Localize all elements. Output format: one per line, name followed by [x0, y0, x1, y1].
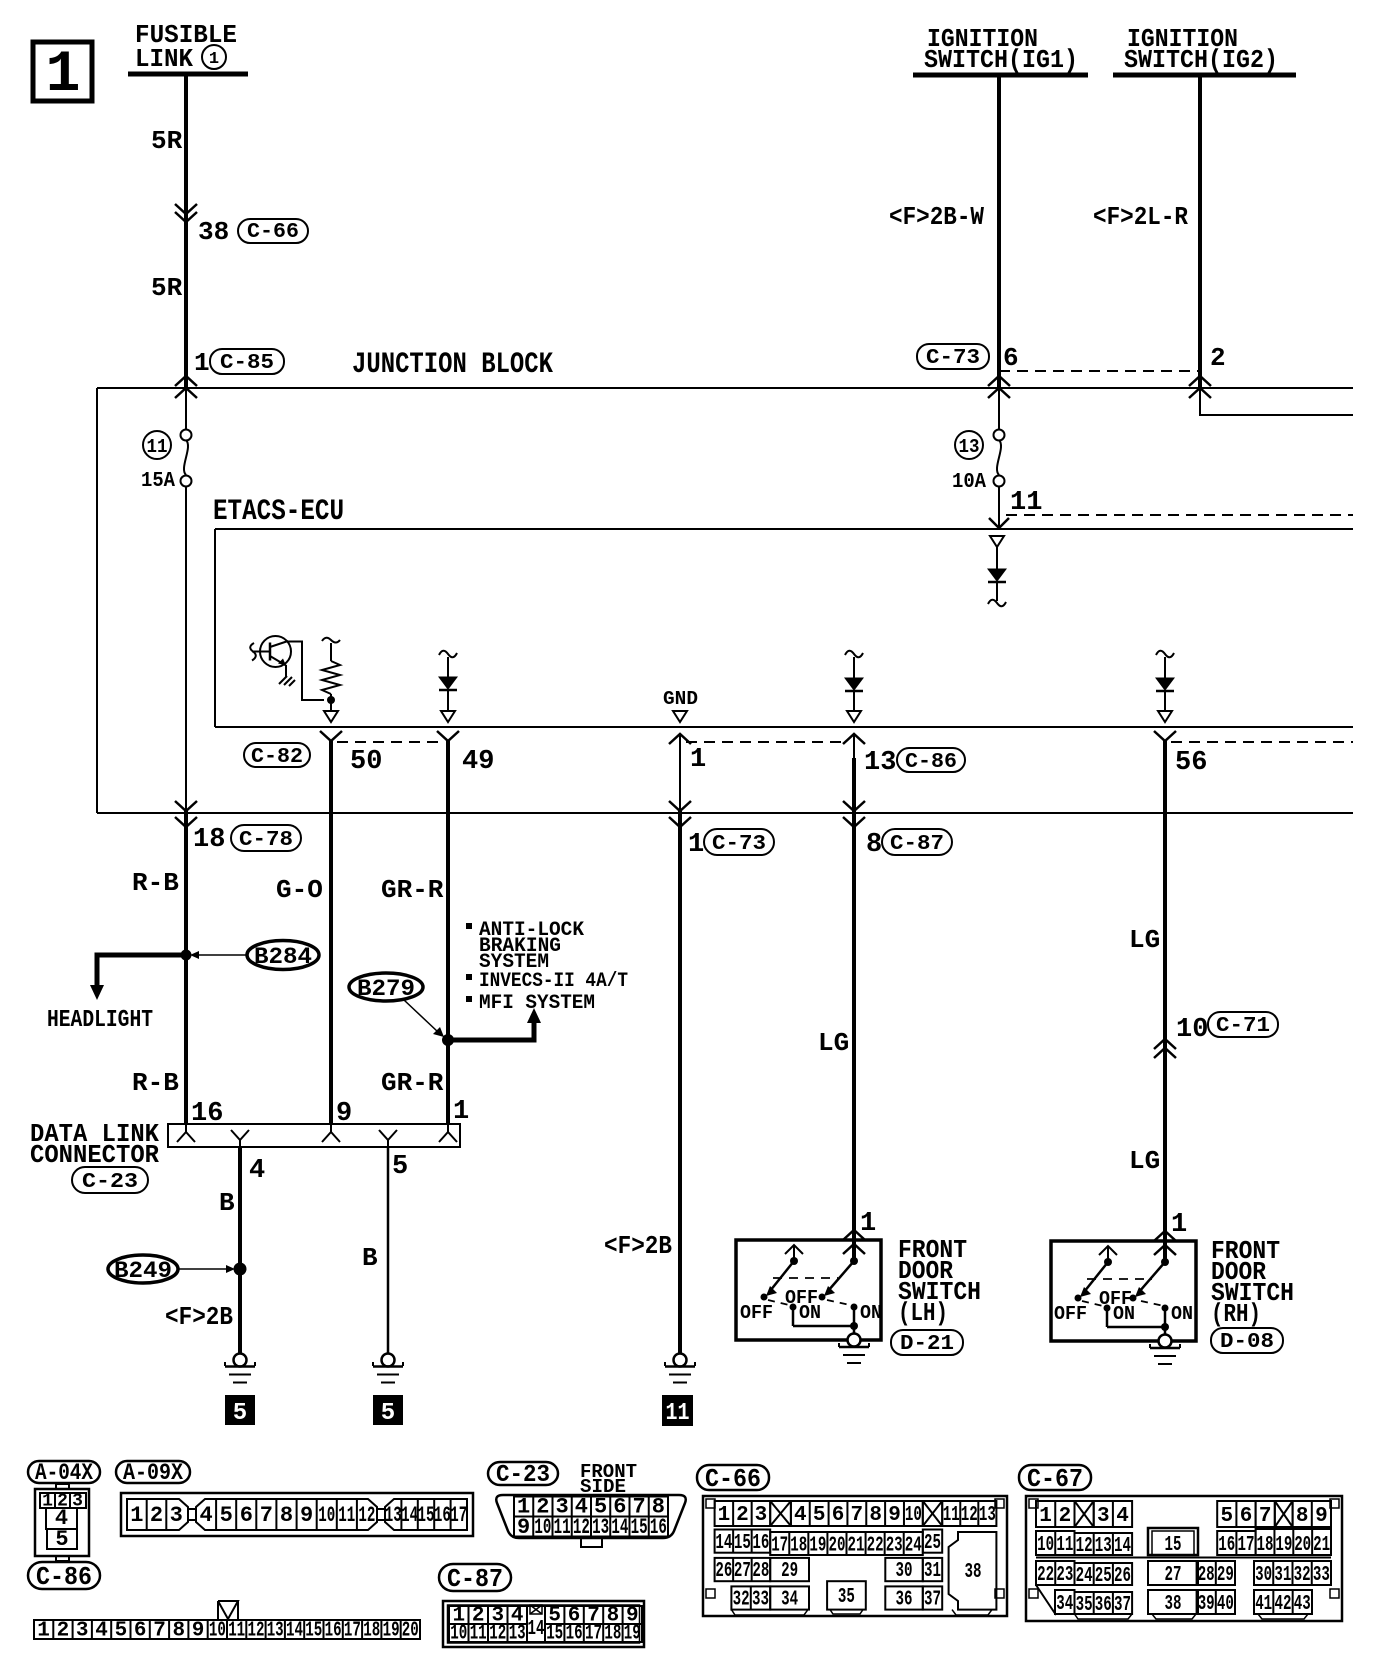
svg-text:24: 24 — [1076, 1565, 1093, 1588]
ground: wire 1 — [665, 1354, 695, 1383]
wire: fusible link down to junction block — [184, 74, 188, 388]
svg-text:ON: ON — [1113, 1303, 1135, 1325]
svg-text:5: 5 — [381, 1400, 395, 1427]
DLC pin 5 symbol — [379, 1130, 397, 1147]
diode at pin 13 — [845, 651, 863, 711]
svg-text:15: 15 — [418, 1503, 435, 1528]
svg-text:ON: ON — [1171, 1303, 1193, 1325]
label (C-23) bottom — [488, 1462, 558, 1489]
svg-text:C-86: C-86 — [905, 751, 957, 774]
junction block top border — [97, 387, 1353, 389]
wire 4: DLC to ground (B) — [238, 1147, 242, 1353]
svg-text:4: 4 — [249, 1156, 265, 1186]
svg-text:C-85: C-85 — [220, 352, 274, 375]
svg-text:D-21: D-21 — [900, 1333, 954, 1356]
svg-text:B279: B279 — [357, 976, 415, 1002]
arrow up to systems list — [527, 1008, 541, 1023]
pin 13 arrow below ECU — [843, 734, 865, 744]
GND pin 1 arrow below ECU — [669, 734, 691, 744]
svg-text:1: 1 — [130, 1503, 143, 1528]
svg-text:16: 16 — [566, 1623, 583, 1646]
connector C-86 body — [34, 1620, 420, 1643]
svg-text:C-73: C-73 — [712, 833, 766, 856]
svg-text:42: 42 — [1275, 1593, 1292, 1616]
FRONT SIDE label — [580, 1461, 637, 1498]
svg-text:16: 16 — [191, 1099, 223, 1129]
pin 11 internal wire — [996, 547, 998, 569]
fusible link bus bar — [128, 72, 248, 77]
svg-text:LG: LG — [818, 1028, 849, 1058]
svg-text:7: 7 — [1259, 1505, 1272, 1528]
svg-text:<F>2B: <F>2B — [165, 1302, 233, 1332]
svg-text:C-71: C-71 — [1216, 1015, 1270, 1038]
junction block bottom border — [97, 812, 1353, 814]
svg-text:9: 9 — [300, 1503, 313, 1528]
resistor R1 — [322, 638, 340, 711]
wire: IG1 down to junction block — [997, 75, 1001, 388]
ignition switch IG1 label — [924, 24, 1078, 75]
ground number box 5 (wire 4) — [225, 1395, 255, 1427]
ON contact left RH — [1104, 1303, 1136, 1327]
svg-text:11: 11 — [228, 1620, 245, 1643]
svg-text:18: 18 — [1257, 1534, 1274, 1557]
label 1 (C-85) — [194, 348, 284, 378]
svg-text:1: 1 — [688, 830, 704, 860]
svg-text:18: 18 — [604, 1623, 621, 1646]
svg-text:20: 20 — [1294, 1534, 1311, 1557]
ground: door switch RH — [1150, 1335, 1180, 1365]
svg-text:ETACS-ECU: ETACS-ECU — [213, 495, 344, 529]
node: splice junction on wire 18 — [181, 950, 192, 961]
node: RH ground junction — [1161, 1323, 1169, 1331]
svg-text:SWITCH(IG2): SWITCH(IG2) — [1124, 45, 1278, 75]
svg-text:36: 36 — [896, 1589, 913, 1612]
ETACS-ECU box top border — [215, 528, 1353, 530]
svg-text:30: 30 — [1255, 1564, 1272, 1587]
svg-text:8: 8 — [172, 1620, 185, 1643]
svg-text:3: 3 — [76, 1620, 89, 1643]
ground number box 5 (wire 5) — [373, 1395, 403, 1427]
ETACS-ECU box bottom border — [215, 726, 1353, 728]
continuation squiggle below pin 11 diode — [988, 600, 1006, 607]
svg-text:(RH): (RH) — [1211, 1299, 1261, 1329]
connector C-66 body — [703, 1496, 1007, 1616]
svg-text:LG: LG — [1129, 1146, 1160, 1176]
label (C-73) pin 6 — [917, 343, 1019, 373]
svg-text:9: 9 — [336, 1099, 352, 1129]
svg-text:R-B: R-B — [132, 868, 179, 898]
svg-text:10: 10 — [905, 1504, 922, 1527]
svg-text:22: 22 — [1037, 1564, 1054, 1587]
svg-text:21: 21 — [848, 1535, 865, 1558]
svg-text:R-B: R-B — [132, 1068, 179, 1098]
svg-text:34: 34 — [781, 1589, 798, 1612]
label 18 (C-78) — [193, 825, 301, 855]
svg-text:(LH): (LH) — [898, 1298, 948, 1328]
svg-text:23: 23 — [886, 1535, 903, 1558]
svg-text:<F>2B-W: <F>2B-W — [889, 202, 984, 232]
svg-text:14: 14 — [401, 1503, 418, 1528]
svg-text:2: 2 — [150, 1503, 163, 1528]
page number box 1 — [33, 42, 92, 108]
svg-text:28: 28 — [752, 1560, 769, 1583]
pin 49 triangle — [441, 711, 455, 722]
svg-text:3: 3 — [755, 1504, 768, 1527]
node: resistor/collector junction — [327, 696, 335, 704]
DLC pin 9 symbol — [322, 1124, 340, 1142]
ground number box 11 — [662, 1395, 693, 1427]
wire from transistor collector to resistor bottom node — [288, 642, 324, 701]
label (D-08) — [1211, 1328, 1283, 1354]
svg-text:B249: B249 — [114, 1258, 172, 1284]
svg-text:<F>2L-R: <F>2L-R — [1093, 202, 1188, 232]
wire joining ON contacts RH — [1107, 1326, 1165, 1329]
ignition switch IG2 bus bar — [1113, 73, 1296, 78]
DLC pin 4 symbol — [231, 1130, 249, 1147]
splice B279 — [349, 973, 444, 1037]
svg-text:9: 9 — [1315, 1505, 1328, 1528]
connector A-09X body — [121, 1493, 473, 1536]
svg-text:HEADLIGHT: HEADLIGHT — [47, 1007, 153, 1034]
svg-text:7: 7 — [260, 1503, 273, 1528]
svg-text:17: 17 — [450, 1503, 467, 1528]
door switch LH right contact arm (from wire 1) — [819, 1254, 859, 1301]
svg-text:B: B — [362, 1243, 378, 1273]
diode at pin 56 — [1156, 651, 1174, 711]
connector C-23 body — [496, 1495, 686, 1548]
svg-text:10: 10 — [318, 1503, 335, 1528]
svg-text:36: 36 — [1095, 1594, 1112, 1617]
svg-text:C-23: C-23 — [496, 1462, 550, 1489]
svg-text:JUNCTION BLOCK: JUNCTION BLOCK — [352, 348, 553, 382]
svg-text:5R: 5R — [151, 126, 183, 156]
svg-text:17: 17 — [344, 1620, 361, 1643]
svg-text:2: 2 — [57, 1620, 70, 1643]
label (A-09X) — [116, 1460, 190, 1486]
svg-text:38: 38 — [1165, 1593, 1182, 1616]
label 8 (C-87) — [866, 829, 952, 860]
svg-text:4: 4 — [95, 1620, 108, 1643]
label 1 (C-73) — [688, 829, 774, 860]
dashed connector line pin 56 to right edge — [1171, 741, 1353, 743]
node: splice junction on wire 49 — [442, 1034, 454, 1046]
wire: below fuse 11 down to junction block bottom — [185, 486, 187, 813]
svg-text:GR-R: GR-R — [381, 1068, 444, 1098]
svg-text:2: 2 — [736, 1504, 749, 1527]
svg-text:37: 37 — [1114, 1594, 1131, 1617]
dashed connector line C-73 between pin 6 and pin 2 — [999, 370, 1200, 372]
svg-text:10A: 10A — [952, 471, 986, 494]
svg-text:INVECS-II 4A/T: INVECS-II 4A/T — [479, 970, 628, 993]
wire GND pin inside junction block (thin) — [679, 734, 681, 811]
DLC pin 1 symbol — [439, 1124, 457, 1142]
chevrons: wire 18 exits junction block — [175, 801, 197, 827]
svg-text:10: 10 — [1037, 1534, 1054, 1557]
svg-text:1: 1 — [453, 1097, 469, 1127]
svg-text:OFF: OFF — [1054, 1303, 1087, 1325]
svg-text:50: 50 — [350, 747, 382, 777]
door switch RH left contact arm — [1075, 1246, 1118, 1302]
svg-text:22: 22 — [867, 1535, 884, 1558]
node: splice junction on wire 4 — [234, 1263, 247, 1276]
fusible link label — [135, 20, 237, 74]
pin 56 triangle — [1158, 711, 1172, 722]
svg-text:10: 10 — [209, 1620, 226, 1643]
svg-text:37: 37 — [924, 1589, 941, 1612]
label (A-04X) — [28, 1460, 100, 1486]
pin 13 triangle — [847, 711, 861, 722]
svg-text:A-04X: A-04X — [35, 1460, 93, 1486]
svg-text:38: 38 — [198, 217, 229, 247]
DLC pin 16 symbol — [177, 1124, 195, 1142]
svg-text:B: B — [219, 1188, 235, 1218]
ignition switch IG1 bus bar — [913, 73, 1088, 78]
transistor base continuation squiggle — [250, 643, 256, 661]
svg-text:C-73: C-73 — [926, 347, 980, 370]
svg-text:12: 12 — [358, 1503, 375, 1528]
svg-text:15: 15 — [734, 1532, 751, 1555]
transistor Q1 — [252, 636, 291, 667]
ground: wire 4 — [225, 1354, 255, 1383]
svg-text:30: 30 — [896, 1560, 913, 1583]
svg-text:43: 43 — [1294, 1593, 1311, 1616]
svg-text:18: 18 — [363, 1620, 380, 1643]
svg-text:11: 11 — [147, 436, 168, 458]
svg-text:11: 11 — [1010, 488, 1042, 518]
svg-text:C-23: C-23 — [82, 1171, 138, 1194]
svg-text:41: 41 — [1255, 1593, 1272, 1616]
svg-text:12: 12 — [489, 1623, 506, 1646]
systems list text — [466, 919, 628, 1015]
label (C-23) — [72, 1167, 148, 1194]
label (C-82) — [244, 743, 310, 769]
door switch RH right contact arm (from wire 1) — [1130, 1255, 1170, 1302]
svg-text:5: 5 — [233, 1400, 247, 1427]
svg-text:4: 4 — [1116, 1505, 1129, 1528]
fuse number circle 13 — [955, 431, 983, 459]
svg-text:27: 27 — [1165, 1564, 1182, 1587]
svg-text:38: 38 — [965, 1561, 982, 1584]
svg-text:25: 25 — [924, 1532, 941, 1555]
svg-text:20: 20 — [829, 1535, 846, 1558]
svg-text:17: 17 — [585, 1623, 602, 1646]
svg-text:1: 1 — [46, 43, 81, 108]
wire pin 56 down through junction block to door switch RH — [1163, 741, 1167, 1262]
svg-text:6: 6 — [1240, 1505, 1253, 1528]
connector chevrons at junction block top, IG2 wire — [1189, 376, 1211, 398]
svg-text:6: 6 — [240, 1503, 253, 1528]
svg-text:D-08: D-08 — [1220, 1331, 1274, 1354]
connector C-86 locator triangle — [218, 1601, 238, 1620]
svg-text:16: 16 — [1218, 1534, 1235, 1557]
svg-text:2: 2 — [1210, 343, 1226, 373]
svg-text:40: 40 — [1217, 1593, 1234, 1616]
svg-text:SWITCH(IG1): SWITCH(IG1) — [924, 45, 1078, 75]
svg-text:LINK: LINK — [135, 44, 193, 74]
svg-text:28: 28 — [1198, 1564, 1215, 1587]
chevrons: wire 56 enters door switch RH — [1154, 1231, 1176, 1255]
svg-text:5: 5 — [1220, 1505, 1233, 1528]
chevrons: wire 8 exits junction block — [843, 801, 865, 827]
wire: fusible link wire inside junction block (thin) — [185, 388, 187, 429]
wire 49: pin 49 to DLC pin 1 (GR-R) — [446, 741, 450, 1124]
ON contact right LH — [851, 1302, 883, 1334]
svg-text:13: 13 — [959, 436, 980, 458]
svg-text:31: 31 — [924, 1560, 941, 1583]
dashed alternate positions RH — [1082, 1279, 1164, 1306]
connector chevrons at junction block top, IG1 wire — [988, 376, 1010, 398]
dashed connector line pins 1-13 — [686, 741, 848, 743]
svg-text:13: 13 — [385, 1503, 402, 1528]
svg-text:16: 16 — [434, 1503, 451, 1528]
svg-text:5: 5 — [813, 1504, 826, 1527]
wire: IG2 down to junction block — [1198, 75, 1202, 388]
pin 13 label with (C-86) — [864, 748, 965, 778]
dashed alternate positions LH — [768, 1278, 850, 1305]
fuse 13 symbol — [994, 430, 1005, 487]
svg-text:CONNECTOR: CONNECTOR — [30, 1140, 159, 1170]
svg-text:MFI SYSTEM: MFI SYSTEM — [479, 992, 595, 1015]
svg-text:27: 27 — [734, 1560, 751, 1583]
svg-text:18: 18 — [193, 825, 225, 855]
DATA LINK CONNECTOR label — [30, 1119, 159, 1170]
svg-text:C-66: C-66 — [247, 221, 299, 244]
wire: fuse 13 down to ETACS-ECU pin 11 with arrow — [989, 486, 1009, 528]
svg-text:11: 11 — [338, 1503, 355, 1528]
svg-text:15: 15 — [546, 1623, 563, 1646]
wire: IG1 inside junction block to fuse 13 — [998, 388, 1000, 429]
ON contact left LH — [790, 1302, 822, 1326]
svg-text:20: 20 — [402, 1620, 419, 1643]
svg-text:16: 16 — [752, 1532, 769, 1555]
svg-text:15A: 15A — [141, 470, 175, 493]
label (D-21) — [891, 1330, 963, 1356]
transistor emitter chassis ground — [279, 665, 295, 686]
wire pin 13 to junction block bottom — [853, 734, 855, 758]
svg-text:13: 13 — [592, 1515, 609, 1540]
svg-text:29: 29 — [1217, 1564, 1234, 1587]
FRONT DOOR SWITCH (LH) label — [898, 1235, 981, 1328]
label (C-86) — [28, 1562, 100, 1592]
GND pin triangle — [673, 711, 687, 722]
svg-text:6: 6 — [134, 1620, 147, 1643]
svg-text:12: 12 — [573, 1515, 590, 1540]
wire 8: junction block to door switch LH — [852, 813, 856, 1261]
svg-text:13: 13 — [979, 1504, 996, 1527]
connector C-67 body — [1026, 1496, 1342, 1621]
svg-text:8: 8 — [869, 1504, 882, 1527]
svg-text:5: 5 — [392, 1152, 408, 1182]
svg-text:14: 14 — [715, 1532, 732, 1555]
wire 50: pin 50 to DLC pin 9 (G-O) — [329, 741, 333, 1124]
pin 50 triangle — [324, 711, 338, 722]
svg-text:13: 13 — [509, 1623, 526, 1646]
svg-text:31: 31 — [1274, 1564, 1291, 1587]
connector A-04X body — [35, 1484, 89, 1561]
svg-text:11: 11 — [470, 1623, 487, 1646]
svg-text:49: 49 — [462, 747, 494, 777]
wire: IG2 branch to right edge inside junction block — [1200, 388, 1353, 415]
svg-text:19: 19 — [624, 1623, 641, 1646]
fuse 11 symbol — [181, 430, 192, 487]
svg-text:14: 14 — [528, 1618, 545, 1641]
ON contact right RH — [1162, 1303, 1194, 1335]
svg-text:26: 26 — [715, 1560, 732, 1583]
svg-text:29: 29 — [781, 1560, 798, 1583]
svg-text:32: 32 — [1294, 1564, 1311, 1587]
svg-text:9: 9 — [888, 1504, 901, 1527]
svg-text:1: 1 — [690, 745, 706, 775]
svg-text:LG: LG — [1129, 925, 1160, 955]
svg-text:11: 11 — [666, 1400, 690, 1427]
connector marker 38 (C-66) double chevron — [175, 204, 197, 222]
ground: wire 5 — [373, 1354, 403, 1383]
svg-text:6: 6 — [1003, 343, 1019, 373]
svg-text:C-78: C-78 — [239, 829, 293, 852]
svg-text:C-87: C-87 — [447, 1564, 503, 1594]
svg-text:10: 10 — [1176, 1015, 1208, 1045]
svg-text:14: 14 — [1114, 1535, 1131, 1558]
wire: branch to anti-lock/invecs/mfi systems — [448, 1022, 534, 1040]
svg-text:11: 11 — [1056, 1534, 1073, 1557]
svg-text:1: 1 — [37, 1620, 50, 1643]
wire joining ON contacts LH — [793, 1325, 854, 1328]
svg-text:34: 34 — [1056, 1593, 1073, 1616]
svg-text:12: 12 — [961, 1504, 978, 1527]
svg-text:B284: B284 — [254, 944, 312, 970]
svg-text:5: 5 — [220, 1503, 233, 1528]
svg-text:33: 33 — [752, 1589, 769, 1612]
connector chevrons at junction block top, fusible link wire — [175, 376, 197, 398]
svg-text:10: 10 — [534, 1515, 551, 1540]
FRONT DOOR SWITCH (RH) label — [1211, 1236, 1294, 1329]
svg-text:17: 17 — [1238, 1534, 1255, 1557]
svg-text:16: 16 — [325, 1620, 342, 1643]
svg-text:16: 16 — [650, 1515, 667, 1540]
svg-text:7: 7 — [153, 1620, 166, 1643]
svg-text:25: 25 — [1095, 1565, 1112, 1588]
svg-text:10: 10 — [450, 1623, 467, 1646]
splice B249 — [108, 1255, 235, 1284]
label (C-87) bottom — [439, 1564, 511, 1594]
svg-text:11: 11 — [943, 1504, 960, 1527]
svg-text:1: 1 — [209, 50, 219, 69]
wire: headlight branch — [97, 955, 186, 986]
svg-text:8: 8 — [280, 1503, 293, 1528]
svg-text:1: 1 — [1171, 1210, 1187, 1240]
svg-text:C-66: C-66 — [705, 1464, 761, 1494]
svg-text:17: 17 — [771, 1535, 788, 1558]
pin 11 internal: pin triangle — [990, 536, 1004, 547]
svg-text:9: 9 — [192, 1620, 205, 1643]
svg-text:23: 23 — [1056, 1564, 1073, 1587]
svg-text:1: 1 — [718, 1504, 731, 1527]
svg-text:9: 9 — [517, 1515, 530, 1540]
chevrons: wire 8 enters door switch LH — [843, 1230, 865, 1254]
svg-text:39: 39 — [1198, 1593, 1215, 1616]
svg-text:24: 24 — [905, 1535, 922, 1558]
svg-text:14: 14 — [286, 1620, 303, 1643]
svg-text:7: 7 — [850, 1504, 863, 1527]
svg-text:15: 15 — [631, 1515, 648, 1540]
ETACS-ECU box left border — [214, 529, 216, 727]
svg-text:18: 18 — [790, 1535, 807, 1558]
svg-text:8: 8 — [1296, 1505, 1309, 1528]
svg-text:1: 1 — [1039, 1505, 1052, 1528]
node: LH ground junction — [850, 1322, 858, 1330]
svg-text:19: 19 — [809, 1535, 826, 1558]
pin 49 chevron below ECU — [437, 731, 459, 741]
